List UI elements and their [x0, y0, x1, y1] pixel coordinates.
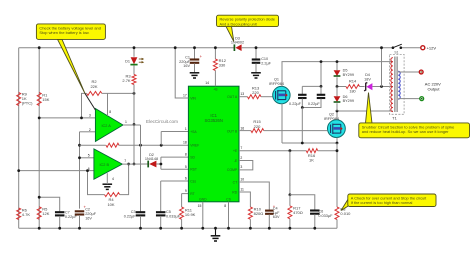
junction	[58, 227, 61, 230]
svg-text:6: 6	[185, 177, 187, 181]
resistor R7	[106, 143, 119, 147]
svg-text:5: 5	[88, 154, 90, 158]
wire R2 to LED node	[102, 92, 134, 94]
svg-text:15: 15	[198, 204, 202, 208]
wire sense filter vertical	[289, 151, 291, 195]
svg-text:IC2 B: IC2 B	[100, 163, 110, 167]
wire VREF to C3	[140, 145, 142, 211]
svg-text:8: 8	[109, 110, 111, 114]
svg-text:10: 10	[240, 178, 244, 182]
wire pin11 to R10	[239, 192, 250, 207]
callout snubber	[359, 93, 470, 138]
wire +12V top bus left	[19, 47, 235, 49]
wire VREF left segment	[80, 144, 106, 146]
junction	[255, 46, 258, 49]
AC output terminal top	[419, 70, 423, 74]
wire to IC1 pin 6	[161, 180, 189, 182]
ground under IC2B	[103, 184, 113, 189]
wire to IC1 pin 8	[161, 156, 189, 158]
wire D4 to center tap	[372, 86, 393, 88]
wire divider rail R1/R5	[38, 48, 40, 229]
ground main bars	[211, 236, 221, 241]
junction	[336, 85, 339, 88]
svg-text:D1: D1	[125, 59, 130, 63]
zener D4 18V	[364, 73, 372, 91]
wire cap C8 top lead	[301, 86, 303, 94]
wire divider tap to C7	[39, 197, 60, 211]
transformer T1	[390, 54, 405, 120]
junction	[320, 60, 323, 63]
svg-text:2: 2	[89, 128, 91, 132]
resistor R1	[37, 93, 50, 106]
junction	[214, 227, 217, 230]
callout reverse polarity	[217, 15, 279, 41]
wire CS pin stub	[228, 202, 230, 228]
wire ground bottom bus	[19, 227, 337, 229]
resistor R5	[37, 207, 50, 220]
wire R12 to pin 14	[214, 71, 216, 87]
wire C2 to ground bus	[79, 215, 81, 228]
IC U1 SG3526N	[188, 86, 239, 202]
wire IC2A output	[123, 124, 141, 126]
ground under C10	[251, 73, 261, 78]
svg-text:IC2 A: IC2 A	[102, 124, 112, 128]
wire feedback right	[120, 164, 129, 195]
wire IC2A output down to VREF node	[140, 125, 142, 145]
capacitor C4	[265, 204, 280, 219]
svg-text:R13220: R13220	[252, 85, 260, 95]
wire LED to R3	[133, 65, 135, 74]
wire D5 to snubber mid	[336, 77, 338, 86]
svg-text:Snubber Circuit Section to sol: Snubber Circuit Section to solve the pro…	[362, 124, 455, 134]
wire to IC1 pin 1	[161, 131, 188, 133]
wire IC1 pin 9	[182, 193, 189, 195]
resistor R6	[17, 208, 31, 220]
junction	[133, 123, 136, 126]
wire R11 to ground bus	[181, 219, 183, 228]
wire to IC1 pin 5	[161, 168, 189, 170]
wire C6 to ground bus	[314, 214, 316, 228]
wire secondary top to AC terminal	[398, 71, 419, 73]
wire Q2 drain up	[336, 111, 338, 120]
svg-text:180: 180	[349, 90, 355, 94]
resistor R9	[17, 92, 33, 106]
junction	[159, 227, 162, 230]
capacitor C1	[179, 54, 202, 68]
diode D6 BY299	[334, 95, 354, 103]
wire C5 to ground bus	[160, 216, 162, 228]
wire IC2A non-inverting input	[39, 117, 95, 119]
wire pin13 to R13	[239, 96, 248, 98]
wire VREF to IC pin 18	[119, 144, 189, 146]
wire R13 to Q1 gate	[261, 96, 273, 98]
svg-text:7: 7	[124, 159, 126, 163]
wire R16 to source sense	[318, 150, 337, 152]
junction	[380, 85, 383, 88]
wire SD/RST loop vertical	[160, 157, 162, 169]
resistor R12	[213, 58, 226, 71]
junction	[160, 144, 163, 147]
wire D6 top lead	[336, 87, 338, 97]
wire C1 to ground	[194, 63, 196, 72]
wire C3 to ground bus	[140, 216, 142, 228]
wire R17 to ground bus	[289, 219, 291, 228]
resistor R2	[87, 79, 102, 95]
resistor R14	[346, 78, 360, 88]
svg-text:13: 13	[240, 92, 244, 96]
wire IC2B inverting input	[19, 170, 94, 172]
wire Css to C5	[160, 181, 162, 212]
junction	[133, 46, 136, 49]
junction	[301, 106, 304, 109]
LED D1	[125, 57, 144, 64]
svg-text:+12V: +12V	[427, 46, 437, 51]
junction	[133, 92, 136, 95]
junction	[78, 227, 81, 230]
wire Q1 drain to transformer primary top	[282, 62, 393, 87]
svg-text:9: 9	[185, 189, 187, 193]
wire cap bottom link	[302, 99, 321, 108]
resistor R16	[306, 149, 317, 163]
svg-text:1: 1	[185, 127, 187, 131]
wire top bus to +12V terminal	[401, 47, 421, 49]
wire bus to C10	[255, 48, 257, 59]
callout pointer line	[85, 94, 95, 111]
svg-text:11: 11	[240, 188, 244, 192]
junction	[86, 169, 89, 172]
AC output terminal bottom	[420, 97, 424, 101]
svg-text:3: 3	[89, 114, 91, 118]
transistor Q2 IRFP064	[324, 113, 345, 138]
wire R14 to D4	[360, 86, 365, 88]
callout battery check	[36, 24, 105, 94]
svg-text:R15220: R15220	[253, 119, 261, 129]
wire C4 to ground bus	[268, 214, 270, 228]
diode D5 BY299	[334, 69, 354, 77]
svg-text:3: 3	[240, 165, 242, 169]
svg-text:7: 7	[240, 146, 242, 150]
capacitor C6	[310, 209, 333, 217]
wire center tap to +12V bus	[381, 48, 383, 87]
junction	[289, 193, 292, 196]
wire snubber mid left	[337, 86, 346, 88]
wire caps to source rail	[301, 108, 303, 144]
wire reference node vertical	[79, 132, 81, 209]
junction	[227, 227, 230, 230]
wire top bus to LED D1	[133, 48, 135, 57]
junction	[214, 46, 217, 49]
op-amp IC2 B	[94, 149, 122, 179]
wire to C6	[290, 195, 315, 210]
svg-text:4: 4	[112, 177, 114, 181]
junction	[127, 163, 130, 166]
ground under C1	[190, 73, 200, 78]
resistor R11	[180, 207, 196, 219]
capacitor C3	[124, 210, 146, 218]
wire LED node vertical	[133, 85, 135, 165]
wire C10 to ground	[255, 63, 257, 72]
junction	[249, 227, 252, 230]
wire R8 to ground bus	[336, 220, 338, 229]
junction	[193, 46, 196, 49]
svg-text:5: 5	[185, 165, 187, 169]
diode D3 1N4002	[231, 36, 244, 51]
junction	[336, 60, 339, 63]
svg-text:1: 1	[125, 120, 127, 124]
diode D2 1N4148	[145, 153, 158, 168]
wire transformer primary bottom	[337, 110, 393, 112]
junction	[78, 156, 81, 159]
junction	[336, 149, 339, 152]
junction	[80, 117, 83, 120]
resistor R8	[335, 207, 351, 220]
junction	[38, 117, 41, 120]
junction	[133, 163, 136, 166]
wire D5 top lead	[336, 62, 338, 71]
wire R17 top lead	[289, 195, 291, 206]
junction	[336, 142, 339, 145]
svg-text:16: 16	[240, 127, 244, 131]
wire source rail	[282, 142, 337, 144]
wire C7 to ground bus	[59, 216, 61, 228]
junction	[201, 227, 204, 230]
junction	[289, 149, 292, 152]
junction	[38, 196, 41, 199]
wire cap C6a top lead	[320, 86, 322, 94]
wire Q2 source down	[336, 138, 338, 143]
junction	[17, 169, 20, 172]
wire pin7 to R16	[239, 150, 306, 152]
switch S1	[392, 44, 403, 54]
junction	[289, 227, 292, 230]
junction	[139, 144, 142, 147]
svg-text:S1: S1	[394, 51, 398, 55]
junction	[160, 163, 163, 166]
wire IC2A inverting input	[80, 131, 96, 133]
wire R15 to Q2 gate	[264, 130, 327, 132]
wire pin16 to R15	[239, 130, 251, 132]
junction	[268, 227, 271, 230]
junction	[38, 46, 41, 49]
svg-text:18: 18	[183, 141, 187, 145]
junction	[180, 227, 183, 230]
wire pin1 down to VREF node	[160, 132, 162, 146]
svg-text:ElecCircuit.com: ElecCircuit.com	[146, 119, 178, 124]
capacitor C6a	[308, 95, 325, 106]
wire bus to C1	[194, 48, 196, 59]
svg-text:17: 17	[183, 94, 187, 98]
junction	[139, 227, 142, 230]
svg-text:2: 2	[240, 156, 242, 160]
wire IC2B ground stem	[106, 173, 108, 184]
wire secondary bottom to AC terminal	[398, 98, 419, 100]
op-amp IC2 A	[95, 93, 123, 141]
wire bus to R12	[214, 48, 216, 59]
capacitor C7	[55, 210, 78, 218]
wire D2 to SD node	[156, 163, 161, 165]
junction	[313, 227, 316, 230]
wire IC2B non-inverting input	[80, 157, 94, 159]
wire left rail	[18, 48, 20, 229]
svg-text:Output: Output	[428, 86, 441, 91]
ground symbol main	[215, 228, 217, 236]
resistor R10	[248, 207, 263, 220]
+12V terminal	[421, 46, 425, 50]
transistor Q1 IRFP064	[269, 78, 290, 104]
wire cap top link	[302, 85, 321, 87]
junction	[78, 144, 81, 147]
svg-text:14: 14	[205, 81, 209, 85]
junction	[301, 142, 304, 145]
wire IC2B output to D2	[122, 163, 148, 165]
junction	[174, 46, 177, 49]
callout over current	[341, 194, 436, 211]
resistor R13	[248, 85, 262, 98]
wire COMP feedback loop	[239, 161, 253, 170]
wire cap link up to drain wire	[320, 62, 322, 87]
wire R10 to ground bus	[249, 219, 251, 228]
junction	[336, 110, 339, 113]
wire R2 left leg	[82, 93, 87, 118]
junction	[320, 85, 323, 88]
junction	[38, 227, 41, 230]
svg-text:R14: R14	[349, 78, 357, 83]
wire feedback left	[88, 171, 105, 195]
wire GND pin 15 stub	[202, 202, 204, 228]
svg-text:0.22µF: 0.22µF	[289, 102, 302, 106]
resistor R15	[251, 119, 264, 132]
capacitor C8	[289, 95, 307, 106]
wire +12V top bus mid	[242, 47, 393, 49]
svg-text:0.22µF: 0.22µF	[308, 102, 321, 106]
resistor R4	[105, 193, 120, 207]
wire pin9 to R11	[181, 194, 183, 207]
capacitor C5	[156, 210, 181, 218]
wire C8 bottom lead	[301, 99, 303, 108]
capacitor C10	[252, 57, 272, 65]
resistor R3	[122, 73, 136, 84]
wire top bus to VIN pin 17	[175, 48, 188, 98]
svg-text:T1: T1	[392, 116, 397, 121]
junction	[380, 46, 383, 49]
capacitor C2	[75, 205, 97, 221]
svg-text:8: 8	[185, 153, 187, 157]
resistor R17	[288, 206, 303, 219]
svg-text:8: 8	[224, 204, 226, 208]
wire D6 to primary bottom	[336, 103, 338, 111]
wire Q1 source down	[281, 104, 283, 144]
wire pin10 to C4	[239, 182, 269, 210]
wire source rail to R8	[336, 143, 338, 207]
